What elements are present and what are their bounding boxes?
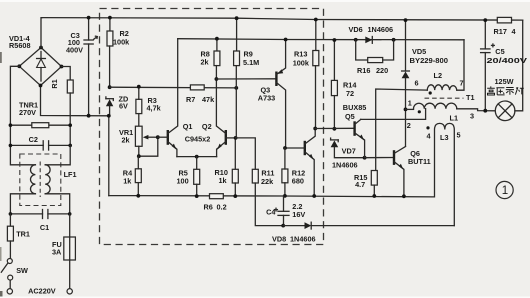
line filter LF1 — [20, 154, 61, 206]
transistor Q5 — [355, 119, 365, 157]
svg-text:C2: C2 — [29, 135, 38, 144]
svg-text:L3: L3 — [440, 133, 449, 142]
wire minus drop to ground rail — [108, 116, 110, 196]
resistor R14 — [331, 38, 337, 131]
capacitor C4 — [275, 196, 289, 228]
svg-text:L1: L1 — [450, 114, 459, 123]
svg-text:270V: 270V — [19, 108, 36, 117]
resistor R16 — [356, 40, 394, 63]
svg-text:72: 72 — [346, 89, 354, 98]
wire LF1 left bottom — [10, 194, 35, 214]
transformer T1 winding L3 — [426, 123, 454, 225]
svg-text:2k: 2k — [201, 58, 210, 67]
svg-text:Q1: Q1 — [183, 122, 193, 131]
wire +V top rail — [42, 18, 523, 21]
transformer T1 winding L1 — [406, 103, 457, 113]
control-board dashed enclosure — [100, 9, 324, 245]
svg-text:3: 3 — [470, 112, 474, 121]
svg-text:5.1M: 5.1M — [243, 58, 259, 67]
svg-text:100: 100 — [177, 177, 189, 186]
svg-text:20/400V: 20/400V — [487, 56, 528, 65]
capacitor C2 — [9, 141, 72, 150]
svg-text:7: 7 — [460, 79, 464, 88]
svg-text:0.2: 0.2 — [217, 203, 227, 212]
svg-text:4,7k: 4,7k — [147, 104, 162, 113]
svg-text:LF1: LF1 — [64, 170, 77, 179]
svg-text:1N4606: 1N4606 — [368, 25, 394, 34]
svg-text:4.7: 4.7 — [355, 180, 365, 189]
resistor R11 — [252, 169, 283, 225]
svg-text:400V: 400V — [66, 46, 83, 55]
resistor R1 — [67, 80, 73, 93]
diode VD6 — [354, 37, 396, 44]
svg-text:R6: R6 — [204, 203, 213, 212]
svg-text:1: 1 — [502, 185, 508, 197]
svg-text:R13: R13 — [294, 50, 307, 59]
svg-text:680: 680 — [292, 176, 304, 185]
svg-text:1N4606: 1N4606 — [332, 160, 358, 169]
svg-text:C945x2: C945x2 — [185, 134, 211, 143]
svg-text:16V: 16V — [292, 210, 305, 219]
svg-text:47k: 47k — [202, 95, 215, 104]
transformer T1 winding L2 — [427, 85, 456, 95]
wire LF1 right bottom — [45, 194, 69, 214]
svg-text:R1: R1 — [50, 79, 59, 88]
svg-text:R7: R7 — [186, 95, 195, 104]
svg-text:R16: R16 — [357, 66, 370, 75]
wire AC line left column — [10, 66, 35, 165]
wire Q5 collector row to L1 tap — [361, 109, 426, 120]
svg-text:1k: 1k — [123, 176, 132, 185]
transistor Q6 — [394, 147, 406, 199]
switch SW — [1, 259, 12, 294]
svg-text:Q2: Q2 — [202, 122, 212, 131]
svg-text:BUX85: BUX85 — [343, 103, 367, 112]
diode VD5 — [402, 18, 410, 146]
svg-text:100k: 100k — [113, 38, 130, 47]
resistor R8 — [214, 37, 220, 81]
transistor Q2 — [216, 79, 235, 157]
wire pin7 drop — [457, 40, 464, 90]
wire ground rail — [109, 196, 434, 197]
svg-text:TR1: TR1 — [16, 229, 30, 238]
resistor R3 — [136, 85, 142, 126]
svg-text:A733: A733 — [258, 93, 275, 102]
diode VD7 — [331, 138, 367, 160]
resistor R7 — [190, 66, 238, 138]
svg-text:6V: 6V — [119, 102, 128, 111]
svg-text:5: 5 — [457, 131, 461, 140]
resistor R15 — [371, 171, 377, 198]
diode VD8 — [283, 222, 454, 229]
resistor R13 — [313, 18, 319, 131]
resistor TR1 — [7, 214, 13, 259]
lamp 125W — [495, 101, 515, 121]
svg-text:AC220V: AC220V — [28, 287, 56, 296]
svg-text:1N4606: 1N4606 — [290, 234, 316, 243]
svg-text:C1: C1 — [40, 223, 49, 232]
svg-text:R17: R17 — [494, 27, 507, 36]
wire emitter link — [177, 156, 217, 158]
wire bridge top to +rail — [41, 18, 42, 48]
resistor R6 — [210, 194, 224, 199]
wire Q6 base row — [365, 157, 394, 159]
zener ZD — [106, 85, 113, 117]
capacitor C3 — [84, 16, 97, 118]
bridge rectifier VD1-4 — [17, 46, 63, 88]
scan smudges — [0, 291, 3, 298]
svg-text:22k: 22k — [261, 177, 274, 186]
wire pin6 drop — [376, 89, 428, 171]
resistor R17 — [497, 17, 511, 23]
circled number 1 — [496, 181, 513, 198]
svg-text:VD5: VD5 — [412, 47, 426, 56]
resistor R5 — [194, 155, 200, 198]
wire Q3 base row — [216, 78, 276, 80]
svg-text:BY229-800: BY229-800 — [410, 56, 449, 65]
svg-text:VD6: VD6 — [349, 25, 363, 34]
svg-text:3A: 3A — [52, 248, 62, 257]
svg-text:C4: C4 — [266, 207, 276, 216]
wire Q2 base node — [234, 136, 256, 169]
svg-text:Q5: Q5 — [345, 112, 355, 121]
svg-text:1k: 1k — [219, 176, 228, 185]
transistor Q3 — [276, 38, 287, 148]
capacitor C1 — [9, 210, 72, 219]
wire Q5 base row — [315, 127, 354, 129]
wire R7 row — [110, 86, 237, 89]
svg-text:125W: 125W — [495, 77, 514, 86]
svg-text:2k: 2k — [122, 136, 131, 145]
resistor R10 — [232, 138, 238, 198]
wire LF1 right top — [45, 145, 70, 164]
svg-text:BUT11: BUT11 — [408, 157, 431, 166]
svg-text:6: 6 — [415, 79, 419, 88]
T1 core — [425, 97, 464, 99]
svg-text:1: 1 — [408, 99, 412, 108]
svg-text:SW: SW — [16, 266, 28, 275]
wire lamp row pin3 — [457, 109, 496, 111]
svg-text:100k: 100k — [293, 58, 310, 67]
wire AC neutral column via R1 — [62, 67, 71, 81]
wire VD6 row — [178, 39, 464, 40]
svg-text:L2: L2 — [434, 71, 443, 80]
svg-text:VD7: VD7 — [342, 147, 356, 156]
transistor Q4 — [283, 129, 316, 198]
label lamp CJK — [487, 86, 524, 95]
svg-text:C5: C5 — [495, 47, 504, 56]
wire lamp right loop — [515, 20, 523, 111]
resistor R2 — [107, 16, 113, 88]
svg-text:T1: T1 — [466, 93, 475, 102]
varistor TNR1 — [9, 123, 72, 128]
fuse FU — [64, 214, 76, 294]
transistor Q1 — [158, 39, 178, 157]
wire DC minus short rail — [41, 86, 109, 116]
potentiometer VR1 — [135, 126, 159, 158]
resistor R4 — [135, 156, 141, 198]
svg-text:R5608: R5608 — [9, 41, 31, 50]
capacitor C5 — [481, 18, 495, 112]
svg-text:VD8: VD8 — [272, 234, 286, 243]
svg-text:2: 2 — [407, 121, 411, 130]
resistor R12 — [282, 148, 288, 198]
resistor R9 — [234, 16, 240, 65]
svg-text:220: 220 — [376, 66, 388, 75]
